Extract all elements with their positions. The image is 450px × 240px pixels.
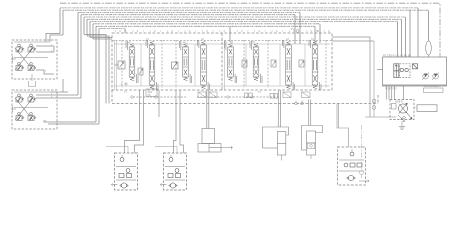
wire row 4 [81, 14, 295, 16]
valve section V6 [250, 41, 262, 83]
reducing valve PV-A4 [28, 63, 36, 71]
compensator K3 [271, 60, 276, 67]
swing motor M3 [338, 147, 370, 185]
svg-text:P1: P1 [291, 28, 295, 31]
wire: travel-right feed [174, 90, 184, 153]
check valve CV2 [283, 92, 291, 98]
wire: m1 drain [106, 147, 128, 154]
valve section V7 [283, 40, 295, 90]
wire row 6 [87, 18, 402, 20]
wire: boom cyl feed [278, 90, 280, 127]
wire row 1 [60, 7, 418, 9]
main pump MP1 [390, 100, 414, 120]
wire row 7 [90, 21, 398, 23]
check valve CV4 [365, 41, 396, 117]
svg-text:b1: b1 [146, 38, 149, 41]
travel motor M1 [111, 153, 137, 190]
node circles on strip [131, 96, 304, 105]
wire: spare stub [158, 90, 160, 117]
wire: strip connectors [133, 96, 279, 98]
reducing valve PV-B1 [16, 94, 24, 102]
pilot hose bundle: phantom boundary wire [60, 3, 440, 57]
svg-text:T2: T2 [258, 91, 262, 94]
relief valve RV1 [115, 61, 126, 69]
pilot valve block PV-B (right joystick) [12, 90, 57, 129]
node P1 inlet [296, 30, 299, 33]
wire: dozer feed [207, 90, 209, 129]
pump P2 [432, 73, 439, 81]
svg-text:AIR COOLER: AIR COOLER [424, 85, 439, 88]
reducing valve PV-B4 [28, 113, 36, 121]
valve section V8 [309, 40, 321, 90]
check valve CV3 [302, 92, 311, 98]
cooler box [424, 85, 444, 92]
orifice pair O1 [245, 93, 253, 98]
dozer cylinder CYL1 [198, 129, 233, 153]
pump block PB1 [377, 57, 447, 86]
node T [121, 82, 129, 87]
wire drops right [125, 8, 429, 57]
arm cylinder CYL3 [302, 126, 323, 160]
valve section V3 [180, 41, 192, 83]
pump P1 [422, 73, 429, 81]
valve section V1 [126, 41, 138, 83]
svg-text:P1 P2 P3: P1 P2 P3 [386, 87, 398, 91]
wire: travel-left feed [125, 90, 144, 153]
wire: pilot headers into MCV [84, 35, 112, 104]
wire: mcv supply verticals [115, 40, 306, 90]
valve section V4 [198, 40, 210, 90]
reducing valve PV-B3 [16, 113, 24, 121]
pilot valve block PV-A (left joystick) [12, 40, 57, 79]
tank T1 [29, 74, 36, 87]
wire row 8 [93, 23, 320, 25]
wire: mcv right link [332, 37, 374, 117]
check valve CV1b [209, 92, 217, 98]
wire: PV-A outputs [36, 34, 63, 75]
valve section V2 [146, 40, 158, 90]
main control valve MCV outline [112, 33, 378, 104]
wire: pump drops [386, 86, 403, 100]
svg-text:b3: b3 [252, 41, 255, 44]
svg-text:2: 2 [45, 71, 47, 73]
wire: mcv gallery top [114, 44, 330, 86]
tiny port labels on mcv [124, 28, 320, 94]
engine E1 [414, 105, 437, 112]
wire row 10 [99, 28, 125, 30]
wire risers left [60, 8, 99, 124]
reducing valve PV-A2 [28, 44, 36, 52]
tank T2 [399, 122, 405, 130]
accumulator AC1 [426, 41, 432, 57]
compensator K1 [138, 68, 143, 75]
svg-text:a2: a2 [183, 41, 186, 44]
label box 12A [146, 89, 157, 97]
wire: swing feed [337, 104, 349, 148]
svg-text:a3: a3 [230, 41, 233, 44]
relief valve RV3 [398, 115, 406, 122]
svg-text:AWB R: AWB R [395, 101, 403, 104]
valve section V5 [225, 41, 237, 83]
svg-text:a1: a1 [128, 41, 131, 44]
boom cylinder CYL2 [263, 127, 289, 161]
port label speck row [115, 30, 330, 32]
reducing valve PV-A1 [16, 44, 24, 52]
reducing valve PV-B2 [28, 94, 36, 102]
relief valve RV2 [172, 62, 179, 69]
svg-text:T: T [121, 83, 123, 87]
wire: PV-B outputs [36, 79, 99, 124]
compensator K4 [299, 60, 304, 67]
travel motor M2 [160, 153, 186, 190]
wire row 5 [84, 16, 406, 18]
wire: m2 drain [155, 147, 177, 154]
port labels PV-B [45, 94, 53, 123]
orifice pair O2 [270, 94, 278, 99]
wire: arm cyl feed [309, 100, 311, 126]
reducing valve PV-A3 [16, 63, 24, 71]
port labels PV-A [45, 45, 53, 73]
check valve CV1a [198, 92, 206, 98]
svg-text:T1: T1 [124, 91, 128, 94]
wire row 2 [63, 9, 429, 11]
wire row 9 [96, 25, 315, 27]
svg-text:P2: P2 [316, 30, 320, 33]
wire row 3 [78, 11, 300, 13]
compensator K2 [242, 60, 247, 67]
wire: swing drain phantom [360, 125, 364, 178]
